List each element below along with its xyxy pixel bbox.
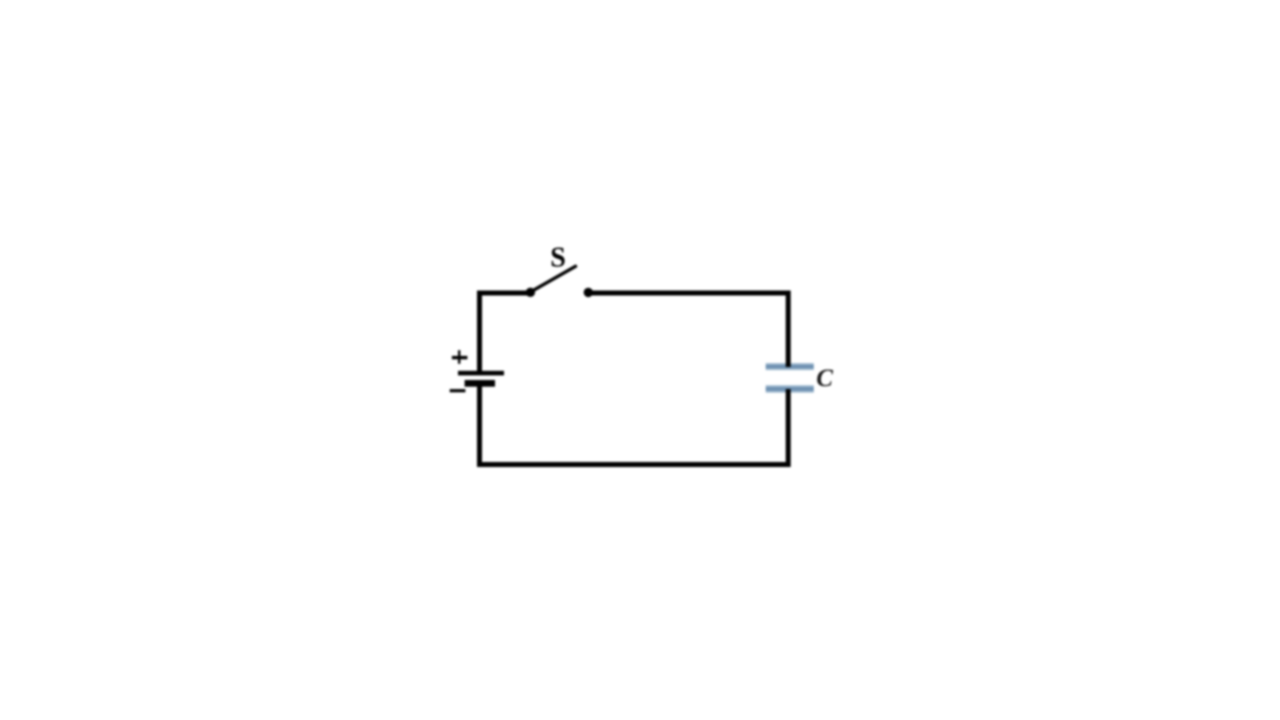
svg-text:C: C xyxy=(816,365,833,392)
wire: top-right run from switch right contact to corner and down to capacitor top plate xyxy=(588,293,788,367)
wire: bottom run from battery - terminal down, across bottom, up to capacitor bottom plate xyxy=(480,385,789,465)
label + (battery positive) xyxy=(452,350,468,364)
capacitor C: top plate xyxy=(766,363,814,370)
switch S: right contact dot xyxy=(584,288,593,297)
wire: top-left run from switch left contact to corner and down to battery + plate xyxy=(480,293,531,371)
label - (battery negative) xyxy=(450,389,466,392)
switch S: lever arm (open) xyxy=(533,266,576,291)
battery: positive plate (long thin) xyxy=(458,371,504,376)
switch S: left contact dot xyxy=(526,288,535,297)
svg-text:S: S xyxy=(550,243,566,274)
capacitor C: bottom plate xyxy=(766,385,814,393)
battery: negative plate (short thick) xyxy=(465,380,495,387)
